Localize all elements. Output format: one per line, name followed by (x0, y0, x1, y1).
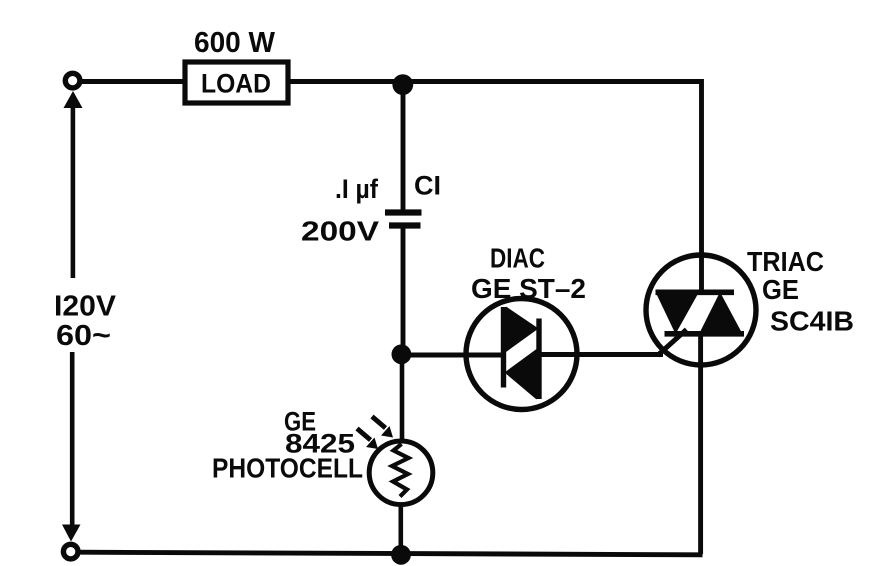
svg-text:TRIAC: TRIAC (747, 246, 824, 277)
svg-text:LOAD: LOAD (201, 69, 271, 99)
wire: junction to diac left bar (405, 353, 504, 358)
svg-text:GE: GE (762, 274, 799, 305)
svg-text:CI: CI (414, 171, 441, 201)
node: gate-network junction (392, 344, 412, 364)
arrow: source polarity up (64, 91, 83, 108)
wire: diac to triac gate (538, 352, 663, 357)
wire: photocell lower lead (398, 503, 403, 550)
light arrow 2 (372, 417, 393, 438)
terminal T2 (AC line, bottom) (63, 544, 78, 559)
svg-text:200V: 200V (301, 216, 379, 247)
svg-text:GE ST–2: GE ST–2 (471, 273, 586, 304)
capacitor C1 plates (385, 213, 422, 226)
capacitor C1 lower lead (401, 229, 406, 349)
arrow: source polarity down (62, 525, 81, 542)
resistor LOAD box (600 W load) (185, 62, 288, 103)
wire: right vertical into triac MT2 (699, 79, 704, 291)
svg-text:PHOTOCELL: PHOTOCELL (212, 453, 363, 484)
photocell R1 (GE 8425) (369, 441, 433, 505)
diac D1 (GE ST-2) (466, 299, 577, 410)
svg-text:.I µf: .I µf (335, 174, 379, 204)
svg-text:600 W: 600 W (194, 27, 276, 59)
node: bottom junction (391, 545, 411, 565)
svg-text:SC4IB: SC4IB (770, 306, 854, 337)
svg-text:DIAC: DIAC (490, 243, 545, 274)
wire: left vertical (upper) (71, 105, 76, 278)
light arrow 1 (357, 429, 378, 450)
wire: triac MT1 down to bottom rail (698, 336, 703, 554)
svg-text:I20V: I20V (54, 291, 117, 323)
wire: photocell upper lead (400, 360, 405, 444)
capacitor C1 upper lead (401, 88, 406, 210)
node: top junction (392, 74, 413, 95)
wire: top rail from T1 to LOAD to junction to right corner (80, 79, 702, 84)
wire: left vertical (lower) (70, 352, 75, 528)
svg-text:60~: 60~ (56, 320, 111, 352)
wire: bottom rail (78, 552, 703, 555)
triac Q1 (GE SC41B) (646, 255, 756, 365)
terminal T1 (AC line, top) (65, 73, 80, 88)
